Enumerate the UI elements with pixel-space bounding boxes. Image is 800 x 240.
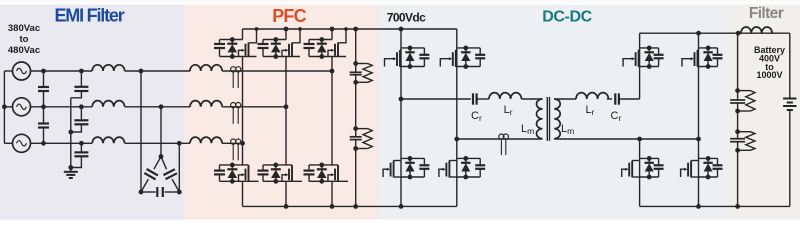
node leg D midpoint <box>696 137 701 142</box>
wire Q14 cell top bar <box>699 157 718 159</box>
wire filter column lower <box>737 150 739 206</box>
wire phase 1 from source to filter inductor <box>31 70 93 72</box>
wire RC column upper <box>355 29 357 62</box>
AC source V3 (phase 3) <box>13 134 31 152</box>
svg-text:EMI Filter: EMI Filter <box>54 5 124 25</box>
transistor Q3 MOSFET <box>328 29 346 57</box>
capacitor Q11 snubber <box>654 48 664 67</box>
node diode top <box>230 37 235 42</box>
wire Q7 cell top bar <box>401 47 424 49</box>
node RC2 bottom <box>735 148 740 153</box>
transistor Q1 MOSFET <box>239 29 257 57</box>
diode Q10 body diode <box>461 158 470 177</box>
node diode bottom <box>706 175 711 180</box>
wire leg 2 vertical <box>285 57 287 165</box>
resistor R-f2 <box>738 132 755 151</box>
wire cell Q1 top bar <box>220 39 243 41</box>
diode Q14 body diode <box>703 158 712 177</box>
node top rail drain junction <box>255 27 259 31</box>
transistor Q7 MOSFET <box>385 50 402 67</box>
wire Q12 cell bottom bar <box>699 66 718 68</box>
node RC2 top <box>735 129 740 134</box>
wire cell Q4 drain bar <box>220 164 249 166</box>
node diode bottom <box>463 64 468 69</box>
capacitor Q6 snubber <box>304 165 315 181</box>
diode Q11 body diode <box>645 48 654 67</box>
node top rail drain junction <box>298 27 302 31</box>
DC-DC section background <box>378 5 728 220</box>
wire cell source bar <box>220 180 259 182</box>
transformer T1 primary winding <box>537 99 543 139</box>
node phase1 delta tap <box>139 69 144 74</box>
node phase2 Cx tap <box>41 104 46 109</box>
wire Q7 cell bottom bar <box>401 66 424 68</box>
node bottom rail junction <box>284 204 289 209</box>
capacitor Cy3 (phase3 to ground bus) <box>71 143 89 167</box>
capacitor C-link lower <box>350 129 362 149</box>
Filter section background <box>728 5 800 220</box>
wire filter column upper <box>737 33 739 90</box>
node diode bottom <box>319 179 324 184</box>
node RC split lower <box>353 126 358 131</box>
wire tank top from leg A <box>401 98 471 100</box>
node RC1 top <box>735 88 740 93</box>
node diode top <box>408 46 413 51</box>
node neutral-phase2 junction <box>2 104 7 109</box>
capacitor Q4 snubber <box>214 165 225 181</box>
wire RC column middle <box>355 82 357 128</box>
wire source V3 left lead <box>4 142 12 144</box>
wire RC column lower <box>355 149 357 207</box>
capacitor Cy1 (phase1 to ground bus) <box>71 71 89 98</box>
wire Q9 cell top bar <box>401 157 424 159</box>
wire battery column lower <box>789 110 791 206</box>
wire cell to bottom rail <box>285 181 287 206</box>
wire right bridge leg C lower <box>639 139 641 206</box>
wire Lr to Cr secondary <box>607 98 612 100</box>
transistor Q14 MOSFET <box>681 161 699 178</box>
node RC join upper <box>353 80 358 85</box>
capacitor C-f2 <box>730 132 745 151</box>
inductor PFC boost L5 <box>190 101 222 107</box>
AC source V1 (phase 1) <box>13 62 31 80</box>
wire tank bottom to right bridge <box>554 138 698 140</box>
capacitor Cx2 (phase2-phase3) <box>38 107 49 144</box>
wire cell source bar <box>309 180 348 182</box>
wire Q10 cell top bar <box>457 157 480 159</box>
wire Q10 cell bottom bar <box>457 176 480 178</box>
inductor EMI L2 <box>92 101 124 107</box>
node delta apex <box>159 154 164 159</box>
capacitor Q9 snubber <box>419 158 429 177</box>
wire cell to bottom rail <box>331 181 333 206</box>
wire cell Q3 top bar <box>309 39 332 41</box>
svg-text:700Vdc: 700Vdc <box>387 11 426 25</box>
inductor Lr (primary) <box>489 93 521 99</box>
wire phase 2 from source to filter inductor <box>31 106 93 108</box>
capacitor Cr (primary) <box>473 93 479 104</box>
capacitor Q14 snubber <box>713 158 723 177</box>
diode Q8 body diode <box>461 48 470 67</box>
inductor filter L-out <box>741 27 772 33</box>
node diode top <box>319 163 324 168</box>
svg-text:PFC: PFC <box>272 6 306 26</box>
wire phase 1 to PFC <box>125 70 190 72</box>
wire phase 2 to PFC <box>125 106 190 108</box>
wire cell Q2 rail link <box>285 29 287 40</box>
transistor Q2 MOSFET <box>282 29 300 57</box>
wire cell Q2 top bar <box>263 39 286 41</box>
capacitor Q8 snubber <box>475 48 485 67</box>
node diode bottom <box>647 64 652 69</box>
transformer T1 core <box>547 97 549 141</box>
wire leg 3 vertical <box>331 57 333 165</box>
node diode top <box>463 156 468 161</box>
wire Q11 cell top bar <box>640 47 659 49</box>
wire Cr to Lr <box>479 98 489 100</box>
wire cell source bar <box>263 180 302 182</box>
wire Q9 cell bottom bar <box>401 176 424 178</box>
wire phase2 drop to delta apex <box>160 107 162 157</box>
node RC1 bottom <box>735 109 740 114</box>
wire Q8 cell top bar <box>457 47 480 49</box>
diode Q1 body diode <box>227 40 237 57</box>
node diode bottom <box>706 64 711 69</box>
wire right bridge top bus <box>640 32 790 34</box>
capacitor Q13 snubber <box>654 158 664 177</box>
node diode bottom <box>319 54 324 59</box>
transistor Q4 MOSFET <box>239 165 249 181</box>
capacitor Q2 snubber <box>258 40 269 57</box>
node top rail drain junction <box>344 27 348 31</box>
diode Q3 body diode <box>317 40 327 57</box>
node top rail junction <box>284 27 289 32</box>
wire phase 3 into PFC bridge <box>222 142 242 144</box>
wire cell source bar <box>220 56 257 58</box>
resistor R-link lower <box>356 129 373 149</box>
ground symbol <box>64 172 78 178</box>
capacitor Q5 snubber <box>258 165 269 181</box>
node leg D bottom <box>696 204 701 209</box>
PFC section background <box>184 5 378 220</box>
node diode top <box>273 163 278 168</box>
wire Q14 cell bottom bar <box>699 176 718 178</box>
node delta bottom-right <box>177 190 182 195</box>
diode Q7 body diode <box>405 48 414 67</box>
capacitor Cd3 (delta bottom side) <box>141 187 179 197</box>
node phase1 Y-cap tap <box>79 69 84 74</box>
node top rail junction <box>353 27 358 32</box>
top edge tint strip <box>0 0 800 1</box>
node diode bottom <box>463 175 468 180</box>
wire neutral bus (left) <box>3 71 5 143</box>
node bottom rail junction <box>353 204 358 209</box>
transistor Q8 MOSFET <box>440 50 457 67</box>
node diode top <box>706 156 711 161</box>
inductor EMI L1 <box>92 65 124 71</box>
diode Q12 body diode <box>703 48 712 67</box>
diode Q2 body diode <box>271 40 281 57</box>
wire cell Q5 drain bar <box>263 164 292 166</box>
transformer T1 secondary winding <box>554 99 560 139</box>
capacitor Cx1 (phase1-phase2) <box>38 71 49 107</box>
wire cell source bar <box>263 56 300 58</box>
node RC split top <box>353 61 358 66</box>
wire PFC +DC top rail <box>243 28 457 30</box>
node Y-bus junction 2 <box>68 165 73 170</box>
capacitor C-f1 <box>730 91 745 111</box>
node diode top <box>319 37 324 42</box>
node diode top <box>273 37 278 42</box>
node phase3 Y-cap tap <box>79 141 84 146</box>
battery BT1 <box>783 99 796 111</box>
node diode bottom <box>647 175 652 180</box>
node diode bottom <box>273 54 278 59</box>
capacitor Q1 snubber <box>214 40 225 57</box>
wire Q13 cell bottom bar <box>640 176 659 178</box>
node leg D top <box>696 31 701 36</box>
wire DC-DC left bridge leg A <box>400 29 402 206</box>
node top rail junction <box>399 27 404 32</box>
node phase 1 to leg junction <box>330 69 335 74</box>
wire right bridge bottom bus <box>640 205 790 207</box>
node phase1 Cx tap <box>41 69 46 74</box>
wire Q8 cell bottom bar <box>457 66 480 68</box>
wire cell Q1 rail link <box>242 29 244 40</box>
current transformer CT3 on phase 3 <box>231 139 241 160</box>
node diode top <box>463 46 468 51</box>
node phase2 Y-cap tap <box>79 104 84 109</box>
wire PFC/DC-link bottom rail <box>243 205 457 207</box>
node diode top <box>706 46 711 51</box>
diode Q9 body diode <box>405 158 414 177</box>
diode Q5 body diode <box>271 165 281 181</box>
wire phase 3 from source to filter inductor <box>31 142 93 144</box>
svg-text:Filter: Filter <box>749 5 784 22</box>
transistor Q5 MOSFET <box>282 165 292 181</box>
node phase2 delta tap <box>159 104 164 109</box>
capacitor Cd1 (delta left side) <box>141 157 161 193</box>
diode Q4 body diode <box>227 165 237 181</box>
node phase3 delta tap <box>177 141 182 146</box>
transistor Q12 MOSFET <box>682 50 699 67</box>
node diode bottom <box>273 179 278 184</box>
wire cell Q3 rail link <box>331 29 333 40</box>
node diode bottom <box>230 54 235 59</box>
node Y-bus junction 1 <box>68 130 73 135</box>
capacitor Q7 snubber <box>419 48 429 67</box>
diode Q13 body diode <box>645 158 654 177</box>
wire tank bottom from leg B <box>457 138 543 140</box>
wire leg 1 vertical <box>242 57 244 165</box>
wire right bridge leg D <box>698 33 700 206</box>
wire filter column middle <box>737 111 739 132</box>
node bottom rail junction <box>399 204 404 209</box>
capacitor Cr (secondary) <box>615 93 619 104</box>
wire cell Q6 drain bar <box>309 164 338 166</box>
node diode top <box>647 156 652 161</box>
node diode bottom <box>408 175 413 180</box>
diode Q6 body diode <box>317 165 327 181</box>
node diode bottom <box>230 179 235 184</box>
transistor Q6 MOSFET <box>328 165 338 181</box>
current transformer CT1 on phase 1 <box>231 67 241 88</box>
wire battery column upper <box>789 33 791 98</box>
node phase 3 to leg junction <box>240 141 245 146</box>
node filter column bottom <box>735 204 740 209</box>
capacitor Cd2 (delta right side) <box>161 157 179 193</box>
node leg A midpoint <box>399 97 404 102</box>
wire Y-cap common bus <box>70 98 72 172</box>
current transformer CT2 on phase 2 <box>231 103 241 124</box>
node RC join lower <box>353 146 358 151</box>
inductor PFC boost L6 <box>190 137 222 143</box>
wire phase 3 to PFC <box>125 142 190 144</box>
wire transformer to Lr secondary <box>554 98 576 100</box>
wire Lr to transformer <box>521 98 542 100</box>
transistor Q13 MOSFET <box>622 161 640 178</box>
transistor Q9 MOSFET <box>383 161 401 178</box>
EMI Filter section background <box>0 5 184 220</box>
wire Q11 cell bottom bar <box>640 66 659 68</box>
capacitor Cy2 (phase2 to ground bus) <box>71 107 89 132</box>
node diode bottom <box>408 64 413 69</box>
wire phase 2 into PFC bridge <box>222 106 286 108</box>
node diode top <box>647 46 652 51</box>
node top rail junction <box>330 27 335 32</box>
wire DC-DC left bridge leg B <box>456 29 458 206</box>
resistor R-link upper <box>356 64 373 83</box>
wire Q13 cell top bar <box>640 157 659 159</box>
wire right bridge leg C upper <box>639 33 641 99</box>
inductor PFC boost L4 <box>190 65 222 71</box>
transistor Q10 MOSFET <box>439 161 457 178</box>
wire cell to bottom rail <box>242 181 244 206</box>
inductor EMI L3 <box>92 137 124 143</box>
node leg C tank join <box>637 137 642 142</box>
wire cell source bar <box>309 56 346 58</box>
inductor Lr (secondary) <box>576 93 608 99</box>
wire Q12 cell top bar <box>699 47 718 49</box>
resistor R-f1 <box>738 91 755 111</box>
wire source V2 left lead <box>4 106 12 108</box>
node delta bottom-left <box>139 190 144 195</box>
AC source V2 (phase 2) <box>13 98 31 116</box>
node phase 2 to leg junction <box>284 104 289 109</box>
current transformer CT4 (tank) <box>499 134 509 155</box>
wire Cr to right bridge leg C <box>619 98 640 100</box>
svg-text:DC-DC: DC-DC <box>542 8 592 25</box>
wire phase3 drop to delta corner <box>178 143 180 192</box>
wire phase 1 into PFC bridge <box>222 70 332 72</box>
capacitor C-link upper <box>350 64 362 83</box>
wire phase1 drop to delta corner <box>140 71 142 192</box>
capacitor Q3 snubber <box>304 40 315 57</box>
capacitor Q12 snubber <box>713 48 723 67</box>
transistor Q11 MOSFET <box>623 50 640 67</box>
node diode top <box>230 163 235 168</box>
node phase3 Cx tap <box>41 141 46 146</box>
node bottom rail junction <box>330 204 335 209</box>
node filter branch top <box>736 31 741 36</box>
node diode top <box>408 156 413 161</box>
wire source V1 left lead <box>4 70 12 72</box>
capacitor Q10 snubber <box>475 158 485 177</box>
node leg B midpoint <box>454 137 459 142</box>
